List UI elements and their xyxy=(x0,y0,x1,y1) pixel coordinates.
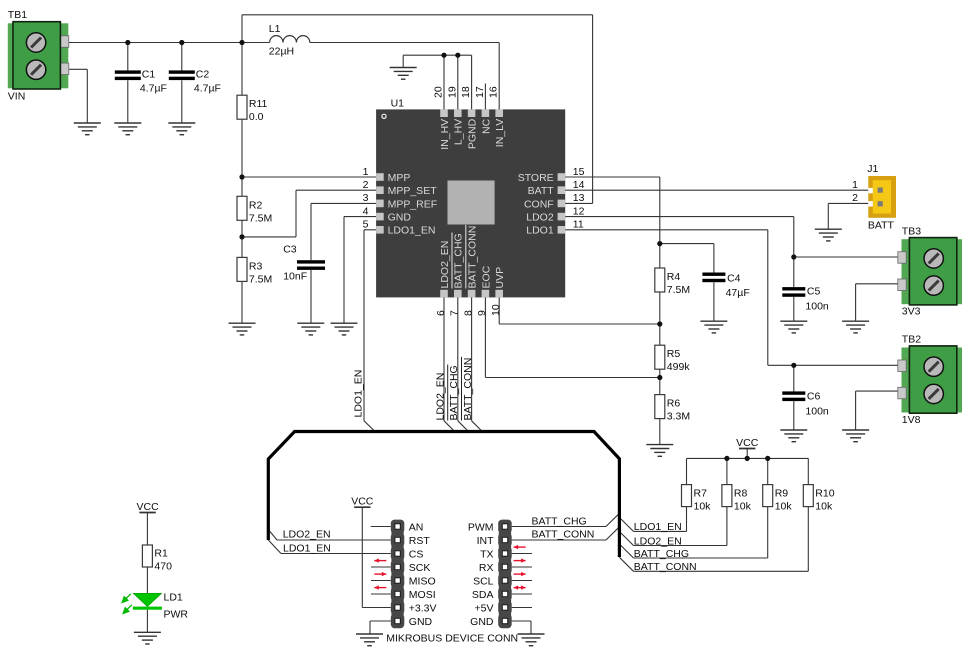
svg-text:BATT_CONN: BATT_CONN xyxy=(634,561,697,573)
svg-text:RST: RST xyxy=(409,535,431,547)
svg-text:47µF: 47µF xyxy=(726,287,750,299)
svg-text:L1: L1 xyxy=(269,23,281,35)
svg-text:BATT_CHG: BATT_CHG xyxy=(453,233,465,288)
svg-text:IN_LV: IN_LV xyxy=(494,119,506,147)
svg-text:MIKROBUS DEVICE CONN: MIKROBUS DEVICE CONN xyxy=(386,632,518,644)
svg-text:SCL: SCL xyxy=(473,576,494,588)
svg-text:MPP: MPP xyxy=(388,172,411,184)
svg-text:5: 5 xyxy=(363,219,369,231)
svg-text:LDO1_EN: LDO1_EN xyxy=(352,370,364,418)
svg-text:14: 14 xyxy=(573,179,585,191)
svg-text:1V8: 1V8 xyxy=(902,414,921,426)
svg-text:C1: C1 xyxy=(142,69,156,81)
svg-text:LDO1: LDO1 xyxy=(526,225,554,237)
svg-text:LDO2_EN: LDO2_EN xyxy=(439,241,451,289)
svg-text:9: 9 xyxy=(476,310,488,316)
svg-text:C4: C4 xyxy=(727,273,741,285)
svg-text:19: 19 xyxy=(446,86,458,98)
svg-text:STORE: STORE xyxy=(518,172,554,184)
svg-text:VCC: VCC xyxy=(351,496,374,508)
svg-text:1: 1 xyxy=(852,179,858,191)
svg-text:LDO2_EN: LDO2_EN xyxy=(283,529,331,541)
svg-text:MOSI: MOSI xyxy=(409,589,436,601)
svg-text:15: 15 xyxy=(573,166,585,178)
svg-text:10nF: 10nF xyxy=(283,271,307,283)
svg-text:470: 470 xyxy=(154,561,172,573)
svg-text:12: 12 xyxy=(573,205,585,217)
svg-text:7.5M: 7.5M xyxy=(249,212,272,224)
svg-text:PWR: PWR xyxy=(164,609,189,621)
svg-text:8: 8 xyxy=(462,310,474,316)
svg-text:3.3M: 3.3M xyxy=(667,411,690,423)
svg-text:U1: U1 xyxy=(391,98,405,110)
svg-text:LDO2_EN: LDO2_EN xyxy=(634,535,682,547)
svg-text:16: 16 xyxy=(488,86,500,98)
svg-text:+3.3V: +3.3V xyxy=(409,603,437,615)
svg-text:UVP: UVP xyxy=(494,267,506,289)
svg-text:R3: R3 xyxy=(249,260,263,272)
svg-text:2: 2 xyxy=(363,179,369,191)
svg-text:2: 2 xyxy=(852,192,858,204)
svg-text:R1: R1 xyxy=(154,548,168,560)
svg-text:R7: R7 xyxy=(694,487,708,499)
svg-text:3: 3 xyxy=(363,192,369,204)
svg-text:7.5M: 7.5M xyxy=(667,284,690,296)
svg-text:LDO2_EN: LDO2_EN xyxy=(434,373,446,421)
svg-text:7.5M: 7.5M xyxy=(249,273,272,285)
svg-text:PGND: PGND xyxy=(467,118,479,149)
svg-text:22µH: 22µH xyxy=(269,46,294,58)
svg-text:C3: C3 xyxy=(283,243,297,255)
svg-text:100n: 100n xyxy=(805,301,829,313)
svg-text:10k: 10k xyxy=(694,500,712,512)
svg-text:PWM: PWM xyxy=(468,522,494,534)
svg-text:1: 1 xyxy=(363,166,369,178)
svg-text:BATT_CONN: BATT_CONN xyxy=(462,358,474,421)
svg-text:R10: R10 xyxy=(815,487,834,499)
svg-text:4.7µF: 4.7µF xyxy=(140,83,167,95)
svg-text:10: 10 xyxy=(490,304,502,316)
svg-text:BATT_CHG: BATT_CHG xyxy=(634,548,689,560)
svg-text:3V3: 3V3 xyxy=(902,306,921,318)
svg-text:100n: 100n xyxy=(805,405,829,417)
svg-text:TB1: TB1 xyxy=(8,9,27,21)
svg-text:LDO2: LDO2 xyxy=(526,212,554,224)
svg-text:INT: INT xyxy=(477,535,495,547)
svg-text:AN: AN xyxy=(409,522,424,534)
svg-text:TB3: TB3 xyxy=(902,226,921,238)
svg-text:LDO1_EN: LDO1_EN xyxy=(283,543,331,555)
svg-text:13: 13 xyxy=(573,192,585,204)
svg-text:BATT_CONN: BATT_CONN xyxy=(532,529,595,541)
svg-text:J1: J1 xyxy=(867,163,878,175)
svg-text:C6: C6 xyxy=(807,390,821,402)
svg-text:GND: GND xyxy=(470,616,494,628)
svg-text:GND: GND xyxy=(388,212,412,224)
svg-text:SCK: SCK xyxy=(409,562,431,574)
svg-text:BATT: BATT xyxy=(528,185,555,197)
svg-text:GND: GND xyxy=(409,616,433,628)
svg-text:18: 18 xyxy=(460,86,472,98)
svg-text:R2: R2 xyxy=(249,199,263,211)
svg-text:R8: R8 xyxy=(734,487,748,499)
svg-text:10k: 10k xyxy=(775,500,793,512)
svg-text:NC: NC xyxy=(480,118,492,134)
svg-text:10k: 10k xyxy=(815,500,833,512)
svg-text:0.0: 0.0 xyxy=(249,111,264,123)
svg-text:BATT: BATT xyxy=(868,220,895,232)
svg-text:LD1: LD1 xyxy=(164,592,183,604)
svg-text:EOC: EOC xyxy=(480,265,492,288)
svg-text:4: 4 xyxy=(363,205,369,217)
svg-text:R11: R11 xyxy=(249,98,268,110)
svg-text:R9: R9 xyxy=(775,487,789,499)
svg-text:L_HV: L_HV xyxy=(453,119,465,145)
svg-text:6: 6 xyxy=(435,310,447,316)
svg-text:VIN: VIN xyxy=(8,91,26,103)
svg-text:RX: RX xyxy=(479,562,494,574)
svg-text:BATT_CHG: BATT_CHG xyxy=(448,365,460,420)
svg-text:C5: C5 xyxy=(807,286,821,298)
svg-text:20: 20 xyxy=(433,86,445,98)
svg-text:R6: R6 xyxy=(667,398,681,410)
svg-text:IN_HV: IN_HV xyxy=(439,119,451,150)
svg-text:BATT_CHG: BATT_CHG xyxy=(532,515,587,527)
svg-text:+5V: +5V xyxy=(475,603,494,615)
svg-text:MISO: MISO xyxy=(409,576,436,588)
svg-text:MPP_REF: MPP_REF xyxy=(388,198,438,210)
svg-text:4.7µF: 4.7µF xyxy=(194,83,221,95)
svg-text:17: 17 xyxy=(474,86,486,98)
svg-text:TB2: TB2 xyxy=(902,333,921,345)
svg-text:11: 11 xyxy=(573,219,584,231)
svg-text:499k: 499k xyxy=(667,361,691,373)
svg-text:VCC: VCC xyxy=(137,501,160,513)
svg-text:SDA: SDA xyxy=(472,589,494,601)
svg-text:BATT_CONN: BATT_CONN xyxy=(467,226,479,289)
svg-text:C2: C2 xyxy=(196,69,210,81)
svg-text:R5: R5 xyxy=(667,348,681,360)
svg-text:CS: CS xyxy=(409,549,424,561)
svg-text:10k: 10k xyxy=(734,500,752,512)
svg-text:R4: R4 xyxy=(667,271,681,283)
svg-text:LDO1_EN: LDO1_EN xyxy=(388,225,436,237)
svg-text:VCC: VCC xyxy=(736,437,759,449)
svg-text:7: 7 xyxy=(449,310,461,316)
svg-text:MPP_SET: MPP_SET xyxy=(388,185,438,197)
svg-text:TX: TX xyxy=(480,549,493,561)
svg-text:LDO1_EN: LDO1_EN xyxy=(634,521,682,533)
svg-text:CONF: CONF xyxy=(524,198,554,210)
